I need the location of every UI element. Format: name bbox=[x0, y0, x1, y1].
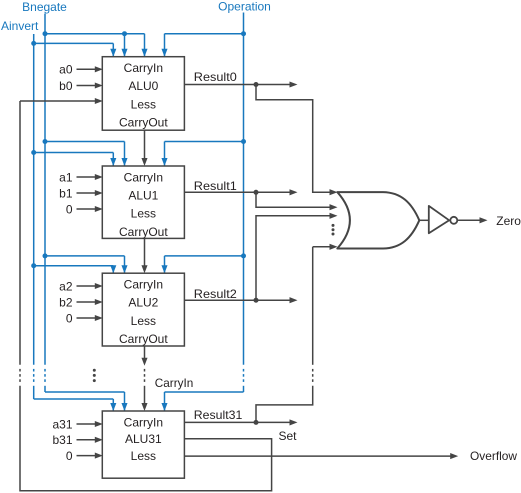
label Result31 bbox=[194, 408, 243, 422]
1-bit ALU block ALU1 bbox=[102, 166, 184, 239]
ellipsis: omitted ALU inputs bbox=[93, 369, 96, 382]
wire: inverter output to Zero bbox=[457, 217, 487, 223]
label Result2 bbox=[194, 287, 237, 301]
output wire Result2 bbox=[184, 297, 297, 303]
output wire Result31 bbox=[184, 419, 297, 425]
node: Result0 junction bbox=[254, 82, 259, 87]
output wire Result0 bbox=[184, 81, 297, 87]
label Overflow bbox=[470, 449, 517, 463]
wire: Operation branch to alu2 Operation input bbox=[161, 256, 243, 273]
svg-text:CarryIn: CarryIn bbox=[124, 61, 163, 75]
output label Zero bbox=[496, 214, 521, 228]
ellipsis: omitted OR gate inputs bbox=[332, 224, 335, 236]
svg-text:Result0: Result0 bbox=[194, 70, 237, 84]
wire: Bnegate branch to alu2 Binvert input bbox=[45, 256, 128, 273]
Ainvert vertical wire bbox=[33, 34, 35, 399]
svg-text:Ainvert: Ainvert bbox=[1, 19, 39, 33]
node: Ainvert junction for alu1 bbox=[31, 150, 36, 155]
node: Result2 junction bbox=[254, 298, 259, 303]
CarryIn label (carry chain) bbox=[155, 376, 194, 390]
svg-text:Less: Less bbox=[131, 314, 156, 328]
wire: Bnegate branch to alu1 Binvert input bbox=[45, 142, 128, 167]
wire: Result31 to OR gate bottom input bbox=[256, 244, 338, 423]
OR gate U1 (zero detect) bbox=[337, 192, 419, 248]
Operation wire ellipsis bbox=[243, 369, 245, 382]
svg-text:CarryIn: CarryIn bbox=[124, 416, 163, 430]
wire: Result2 to OR gate input 3 bbox=[256, 213, 338, 300]
wire: Ainvert branch to alu31 Ainvert input bbox=[34, 399, 117, 411]
wire: ALU2 CarryOut down (to omitted ALUs) bbox=[141, 346, 147, 366]
svg-text:0: 0 bbox=[66, 449, 73, 463]
wire: carry chain into ALU31 CarryIn bbox=[141, 386, 147, 411]
Ainvert wire ellipsis bbox=[33, 369, 35, 382]
node: Operation junction for alu2 bbox=[241, 253, 246, 258]
svg-text:b1: b1 bbox=[59, 186, 73, 200]
node: Ainvert junction for alu0 bbox=[31, 41, 36, 46]
input a0 bbox=[59, 63, 103, 77]
svg-text:b31: b31 bbox=[52, 433, 72, 447]
svg-text:a31: a31 bbox=[52, 417, 72, 431]
wire: Ainvert branch to alu1 Ainvert input bbox=[34, 153, 117, 167]
svg-text:Result31: Result31 bbox=[194, 408, 243, 422]
input b2 bbox=[59, 295, 103, 309]
Operation vertical wire bbox=[243, 13, 245, 393]
svg-text:Result2: Result2 bbox=[194, 287, 237, 301]
wire: Result1 to OR gate input 2 bbox=[256, 192, 338, 210]
svg-text:Zero: Zero bbox=[496, 214, 521, 228]
input 0 bbox=[66, 449, 103, 463]
node: Bnegate junction for alu1 bbox=[43, 139, 48, 144]
svg-text:CarryIn: CarryIn bbox=[124, 170, 163, 184]
svg-text:ALU2: ALU2 bbox=[128, 296, 158, 310]
Ainvert control label bbox=[1, 19, 39, 33]
wire: Operation branch to alu0 Operation input bbox=[161, 34, 243, 57]
input a1 bbox=[59, 170, 103, 184]
svg-text:b0: b0 bbox=[59, 79, 73, 93]
label Set bbox=[279, 429, 298, 443]
Bnegate wire ellipsis bbox=[44, 369, 46, 382]
1-bit ALU block ALU31 bbox=[102, 411, 184, 478]
output wire Result1 bbox=[184, 189, 297, 195]
svg-text:CarryOut: CarryOut bbox=[119, 332, 168, 346]
inverter (NOT) after OR gate bbox=[419, 206, 457, 233]
wire: Operation branch to alu31 Operation input bbox=[161, 392, 243, 411]
svg-text:Result1: Result1 bbox=[194, 179, 237, 193]
svg-text:Less: Less bbox=[131, 207, 156, 221]
node: Operation junction for alu1 bbox=[241, 139, 246, 144]
node: Operation junction for alu0 bbox=[241, 31, 246, 36]
ellipsis: omitted carry chain bbox=[144, 369, 146, 382]
svg-text:Bnegate: Bnegate bbox=[22, 0, 67, 14]
label Result1 bbox=[194, 179, 237, 193]
input a2 bbox=[59, 279, 103, 293]
wire: Ainvert branch to alu0 Ainvert input bbox=[34, 43, 117, 56]
ellipsis: Set loop wire break bbox=[19, 369, 21, 382]
node: Ainvert junction for alu2 bbox=[31, 263, 36, 268]
svg-text:ALU0: ALU0 bbox=[128, 79, 158, 93]
1-bit ALU block ALU2 bbox=[102, 273, 184, 346]
wire: Result0 to OR gate input 1 bbox=[256, 85, 338, 196]
svg-text:CarryOut: CarryOut bbox=[119, 225, 168, 239]
svg-text:ALU1: ALU1 bbox=[128, 189, 158, 203]
wire: Overflow output bbox=[184, 453, 458, 459]
svg-text:a1: a1 bbox=[59, 170, 73, 184]
input 0 bbox=[66, 311, 103, 325]
input 0 bbox=[66, 202, 103, 216]
node: Bnegate/Binvert junction at alu0 bbox=[122, 31, 127, 36]
wire: Ainvert branch to alu2 Ainvert input bbox=[34, 265, 117, 273]
svg-text:Set: Set bbox=[279, 429, 298, 443]
wire: Set output loop to ALU0 Less input bbox=[20, 98, 272, 491]
Bnegate control label bbox=[22, 0, 67, 14]
wire: Bnegate branch to alu31 Binvert input bbox=[45, 392, 128, 411]
node: Result31 junction bbox=[254, 420, 259, 425]
node: Bnegate top junction bbox=[43, 31, 48, 36]
svg-text:a2: a2 bbox=[59, 279, 73, 293]
ellipsis: Result31 riser break bbox=[312, 369, 314, 382]
wire: ALU1 CarryOut to ALU2 CarryIn bbox=[141, 238, 147, 273]
Bnegate vertical wire bbox=[44, 14, 46, 393]
wire: ALU0 CarryOut to ALU1 CarryIn bbox=[141, 130, 147, 166]
wire: Operation branch to alu1 Operation input bbox=[161, 142, 243, 167]
svg-text:ALU31: ALU31 bbox=[125, 432, 162, 446]
wire: Bnegate branch to alu0 Binvert and CarryIn bbox=[45, 34, 148, 57]
input b31 bbox=[52, 433, 102, 447]
input b0 bbox=[59, 79, 103, 93]
node: Result1 junction bbox=[254, 190, 259, 195]
svg-text:Less: Less bbox=[131, 449, 156, 463]
svg-text:Operation: Operation bbox=[218, 0, 271, 14]
input a31 bbox=[52, 417, 102, 431]
Operation control label bbox=[218, 0, 271, 14]
svg-text:0: 0 bbox=[66, 202, 73, 216]
svg-text:a0: a0 bbox=[59, 63, 73, 77]
node: Bnegate junction for alu2 bbox=[43, 253, 48, 258]
input b1 bbox=[59, 186, 103, 200]
svg-text:CarryOut: CarryOut bbox=[119, 116, 168, 130]
svg-text:Less: Less bbox=[131, 97, 156, 111]
svg-text:b2: b2 bbox=[59, 295, 73, 309]
1-bit ALU block ALU0 bbox=[102, 57, 184, 131]
svg-text:CarryIn: CarryIn bbox=[155, 376, 194, 390]
svg-text:0: 0 bbox=[66, 311, 73, 325]
svg-text:CarryIn: CarryIn bbox=[124, 278, 163, 292]
svg-text:Overflow: Overflow bbox=[470, 449, 517, 463]
label Result0 bbox=[194, 70, 237, 84]
